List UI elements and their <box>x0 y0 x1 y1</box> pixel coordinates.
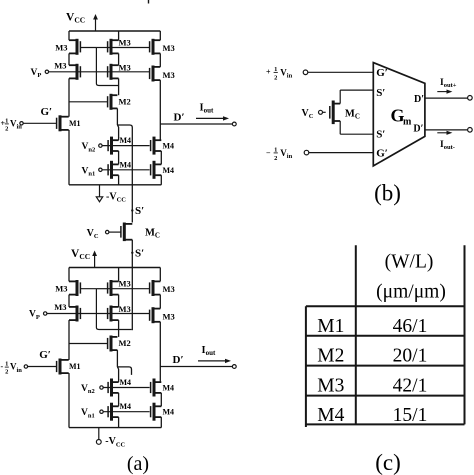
power VCC upper <box>66 12 98 32</box>
pin G' bottom (b) <box>376 148 388 160</box>
svg-text:M2: M2 <box>317 346 344 367</box>
table row M2 <box>317 346 427 367</box>
wire lower right column <box>160 268 161 428</box>
transistor M4 upper upper right <box>151 137 174 155</box>
transistor M3 upper row1 left <box>55 39 96 55</box>
svg-text:S′: S′ <box>376 87 385 99</box>
wire lower left column <box>68 268 70 428</box>
svg-text:S′: S′ <box>135 205 144 217</box>
transistor M4 upper lower right <box>151 161 174 179</box>
wire upper bottom rail <box>69 184 161 186</box>
node D' upper and output Iout <box>160 103 236 126</box>
svg-text:M2: M2 <box>119 96 131 106</box>
pin S' top (b) <box>376 87 385 99</box>
svg-text:42/1: 42/1 <box>393 376 428 397</box>
table header (W/L) <box>385 252 434 273</box>
transistor M3 lower row1 mid <box>96 279 130 297</box>
svg-text:−: − <box>266 149 271 158</box>
junction dot S' lower <box>131 252 133 254</box>
svg-text:M4: M4 <box>120 160 132 169</box>
input Vin upper <box>1 118 57 133</box>
svg-text:2: 2 <box>5 369 8 376</box>
output Iout- (b) <box>425 128 472 152</box>
transistor M4 lower lower right <box>151 403 174 421</box>
transistor M4 lower lower left <box>108 402 131 421</box>
label (c) <box>375 450 401 475</box>
svg-text:M1: M1 <box>69 362 81 371</box>
svg-text:M2: M2 <box>119 338 131 348</box>
table row M4 <box>317 405 427 426</box>
svg-text:M3: M3 <box>54 302 66 312</box>
transistor MC (b) <box>330 101 360 125</box>
svg-text:M4: M4 <box>120 402 132 411</box>
wire lower bottom rail <box>69 427 161 429</box>
svg-text:+: + <box>266 68 271 77</box>
table header (um/um) <box>376 282 446 303</box>
input VC <box>87 228 121 240</box>
label (b) <box>374 181 401 206</box>
svg-text:G′: G′ <box>376 148 388 160</box>
transistor M3 upper row2 left <box>54 60 80 80</box>
output Iout+ (b) <box>425 78 472 100</box>
pin S' bottom (b) <box>376 129 385 141</box>
table horizontal line 2 <box>306 335 465 337</box>
svg-text:M4: M4 <box>163 384 175 393</box>
transistor M4 lower upper right <box>151 379 174 397</box>
wire lower VCC rail <box>69 267 160 269</box>
stray mark top right <box>148 0 150 4</box>
block Gm trapezoid <box>373 63 425 166</box>
table horizontal line 4 <box>306 395 465 397</box>
svg-text:15/1: 15/1 <box>393 405 428 426</box>
svg-text:m: m <box>403 117 412 128</box>
wire upper row1 gate to diode hook <box>96 48 118 86</box>
svg-text:1: 1 <box>274 66 277 73</box>
transistor M4 lower upper left <box>108 378 131 397</box>
svg-text:M3: M3 <box>119 37 131 47</box>
svg-text:D′: D′ <box>414 94 424 105</box>
node S' upper label <box>135 205 144 217</box>
transistor M3 lower row1 left <box>55 280 96 296</box>
svg-text:46/1: 46/1 <box>393 316 428 337</box>
svg-text:M4: M4 <box>120 378 132 387</box>
svg-text:G′: G′ <box>39 349 51 361</box>
transistor M2 upper <box>69 94 131 110</box>
transistor M4 upper lower left <box>108 160 131 179</box>
svg-text:M4: M4 <box>163 166 175 175</box>
pin D' upper (b) <box>414 94 424 105</box>
svg-text:(W/L): (W/L) <box>385 252 434 273</box>
svg-text:M3: M3 <box>55 42 67 52</box>
svg-text:2: 2 <box>5 126 8 133</box>
power VCC lower <box>71 248 97 268</box>
table right border <box>464 245 466 424</box>
transistor M3 lower row2 right <box>150 307 175 323</box>
svg-text:D′: D′ <box>173 354 184 366</box>
pin D' lower (b) <box>413 124 423 135</box>
svg-text:M3: M3 <box>163 312 175 322</box>
input Vn2 lower <box>81 384 150 395</box>
svg-text:G′: G′ <box>376 67 388 79</box>
wire upper S-hook <box>117 125 132 128</box>
transistor M3 upper row2 mid <box>108 62 131 80</box>
wire upper right column <box>160 31 161 185</box>
table column divider <box>355 245 357 424</box>
transistor M2 lower <box>69 336 131 352</box>
label (a) <box>127 453 149 475</box>
svg-text:M3: M3 <box>163 70 175 80</box>
table row M3 <box>317 376 427 397</box>
svg-text:M3: M3 <box>317 376 344 397</box>
node G' upper <box>41 106 53 118</box>
svg-text:(μm/μm): (μm/μm) <box>376 282 446 303</box>
transistor MC <box>121 223 160 242</box>
input Vn1 upper <box>82 166 150 177</box>
node D' lower and output Iout <box>160 345 236 368</box>
svg-text:2: 2 <box>274 74 277 81</box>
transistor M3 lower row1 right <box>108 280 175 296</box>
svg-text:1: 1 <box>5 118 8 125</box>
transistor M3 upper row2 right <box>150 66 175 82</box>
input Vn2 upper <box>82 142 150 153</box>
wire upper mid drain column <box>117 31 118 185</box>
input Vin lower <box>1 361 57 376</box>
transistor M1 lower <box>57 359 81 375</box>
svg-text:M4: M4 <box>120 136 132 145</box>
transistor M4 upper upper left <box>108 136 131 155</box>
table row M1 <box>317 316 427 337</box>
svg-text:M4: M4 <box>163 142 175 151</box>
input VP upper <box>31 68 150 79</box>
svg-text:G′: G′ <box>41 106 53 118</box>
table horizontal line 1 <box>306 305 465 307</box>
wire upper VCC rail <box>69 30 160 32</box>
svg-text:20/1: 20/1 <box>393 346 428 367</box>
transistor M1 upper <box>57 115 81 131</box>
svg-text:M4: M4 <box>317 405 344 426</box>
svg-text:M3: M3 <box>55 284 67 294</box>
svg-text:M1: M1 <box>69 119 81 128</box>
svg-text:M3: M3 <box>119 62 131 72</box>
wire S' lower <box>131 240 133 331</box>
svg-text:-: - <box>1 362 4 371</box>
transistor M3 upper row1 right <box>108 39 175 55</box>
transistor M3 lower row2 left <box>54 302 80 322</box>
svg-text:M3: M3 <box>119 279 131 289</box>
input VC (b) <box>302 108 326 120</box>
svg-text:M3: M3 <box>54 60 66 70</box>
input -half Vin (b) <box>266 147 373 162</box>
table horizontal line 3 <box>306 365 465 367</box>
input +half Vin (b) <box>266 66 373 81</box>
power -VCC lower <box>96 428 125 449</box>
power -VCC upper <box>96 185 126 204</box>
wire lower mid drain column <box>117 268 118 428</box>
svg-text:D′: D′ <box>174 112 185 124</box>
wire lower S-hook <box>117 367 131 375</box>
svg-text:(c): (c) <box>375 450 401 475</box>
input Vn1 lower <box>81 408 150 419</box>
svg-text:M1: M1 <box>317 316 344 337</box>
svg-text:M3: M3 <box>163 43 175 53</box>
node G' lower <box>39 349 51 361</box>
svg-text:2: 2 <box>274 155 277 162</box>
pin G' top (b) <box>376 67 388 79</box>
wire upper left column <box>68 31 70 185</box>
junction dot S' upper <box>131 209 133 211</box>
wire S' upper <box>131 128 133 223</box>
svg-text:M4: M4 <box>163 408 175 417</box>
wire MC source to S' lower (b) <box>340 121 373 134</box>
table left border <box>305 306 307 427</box>
wire MC drain to S' upper (b) <box>340 90 373 104</box>
svg-text:S′: S′ <box>376 129 385 141</box>
transistor M3 upper row1 mid <box>96 37 130 55</box>
svg-text:D′: D′ <box>413 124 423 135</box>
svg-text:(a): (a) <box>127 453 149 475</box>
node S' lower label <box>135 248 144 260</box>
input VP lower <box>29 310 150 321</box>
svg-text:M3: M3 <box>163 284 175 294</box>
wire lower row1 gate to diode hook <box>96 289 131 330</box>
svg-text:S′: S′ <box>135 248 144 260</box>
transistor M3 lower row2 mid <box>108 304 131 322</box>
svg-text:M3: M3 <box>119 304 131 314</box>
table horizontal line 5 <box>306 423 465 425</box>
svg-text:(b): (b) <box>374 181 401 206</box>
